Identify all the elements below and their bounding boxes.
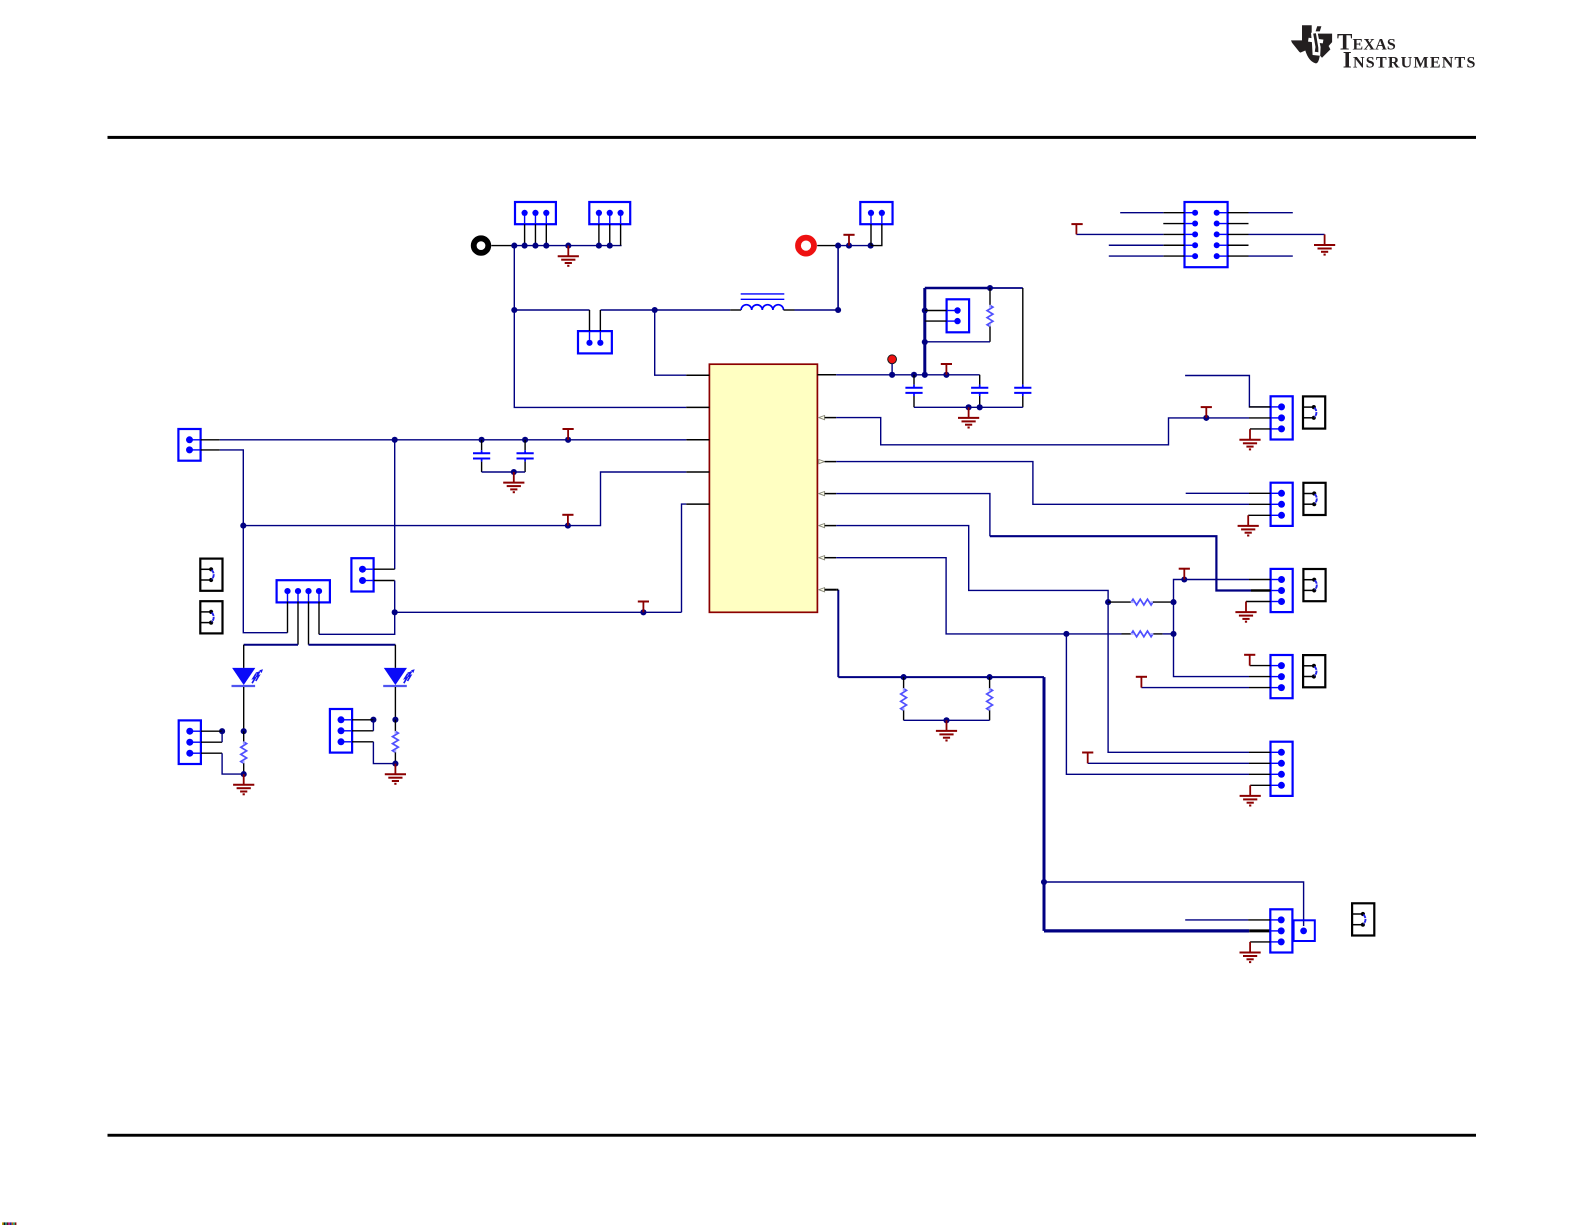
svg-text:Instruments: Instruments	[1343, 48, 1477, 73]
